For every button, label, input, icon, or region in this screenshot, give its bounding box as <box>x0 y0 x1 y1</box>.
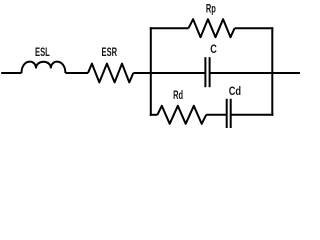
svg-text:ESL: ESL <box>35 47 50 59</box>
wire ESR to node A / cap C left plate <box>133 72 205 74</box>
wire bottom branch left <box>150 114 158 116</box>
svg-text:C: C <box>210 44 217 56</box>
capacitor Cd right plate <box>230 99 232 128</box>
wire top branch right <box>235 27 274 29</box>
svg-text:Rp: Rp <box>206 3 216 15</box>
resistor ESR <box>88 64 133 83</box>
svg-text:ESR: ESR <box>102 47 118 59</box>
resistor Rp <box>189 19 235 37</box>
wire left branch vertical (node A) <box>150 27 152 116</box>
wire cap C to node B and output lead <box>210 72 300 74</box>
wire right branch vertical (node B) <box>271 27 273 116</box>
wire top branch left <box>150 27 189 29</box>
wire Rd to cap Cd <box>206 114 227 116</box>
inductor ESL <box>22 62 66 73</box>
wire cap Cd to node B <box>231 114 274 116</box>
capacitor C right plate <box>209 57 211 87</box>
capacitor C left plate <box>204 57 206 87</box>
svg-text:Rd: Rd <box>173 90 183 102</box>
resistor Rd <box>157 106 206 124</box>
wire ESL to ESR <box>65 72 88 74</box>
svg-text:Cd: Cd <box>229 86 241 98</box>
capacitor Cd left plate <box>226 99 228 128</box>
wire input lead <box>1 72 21 74</box>
